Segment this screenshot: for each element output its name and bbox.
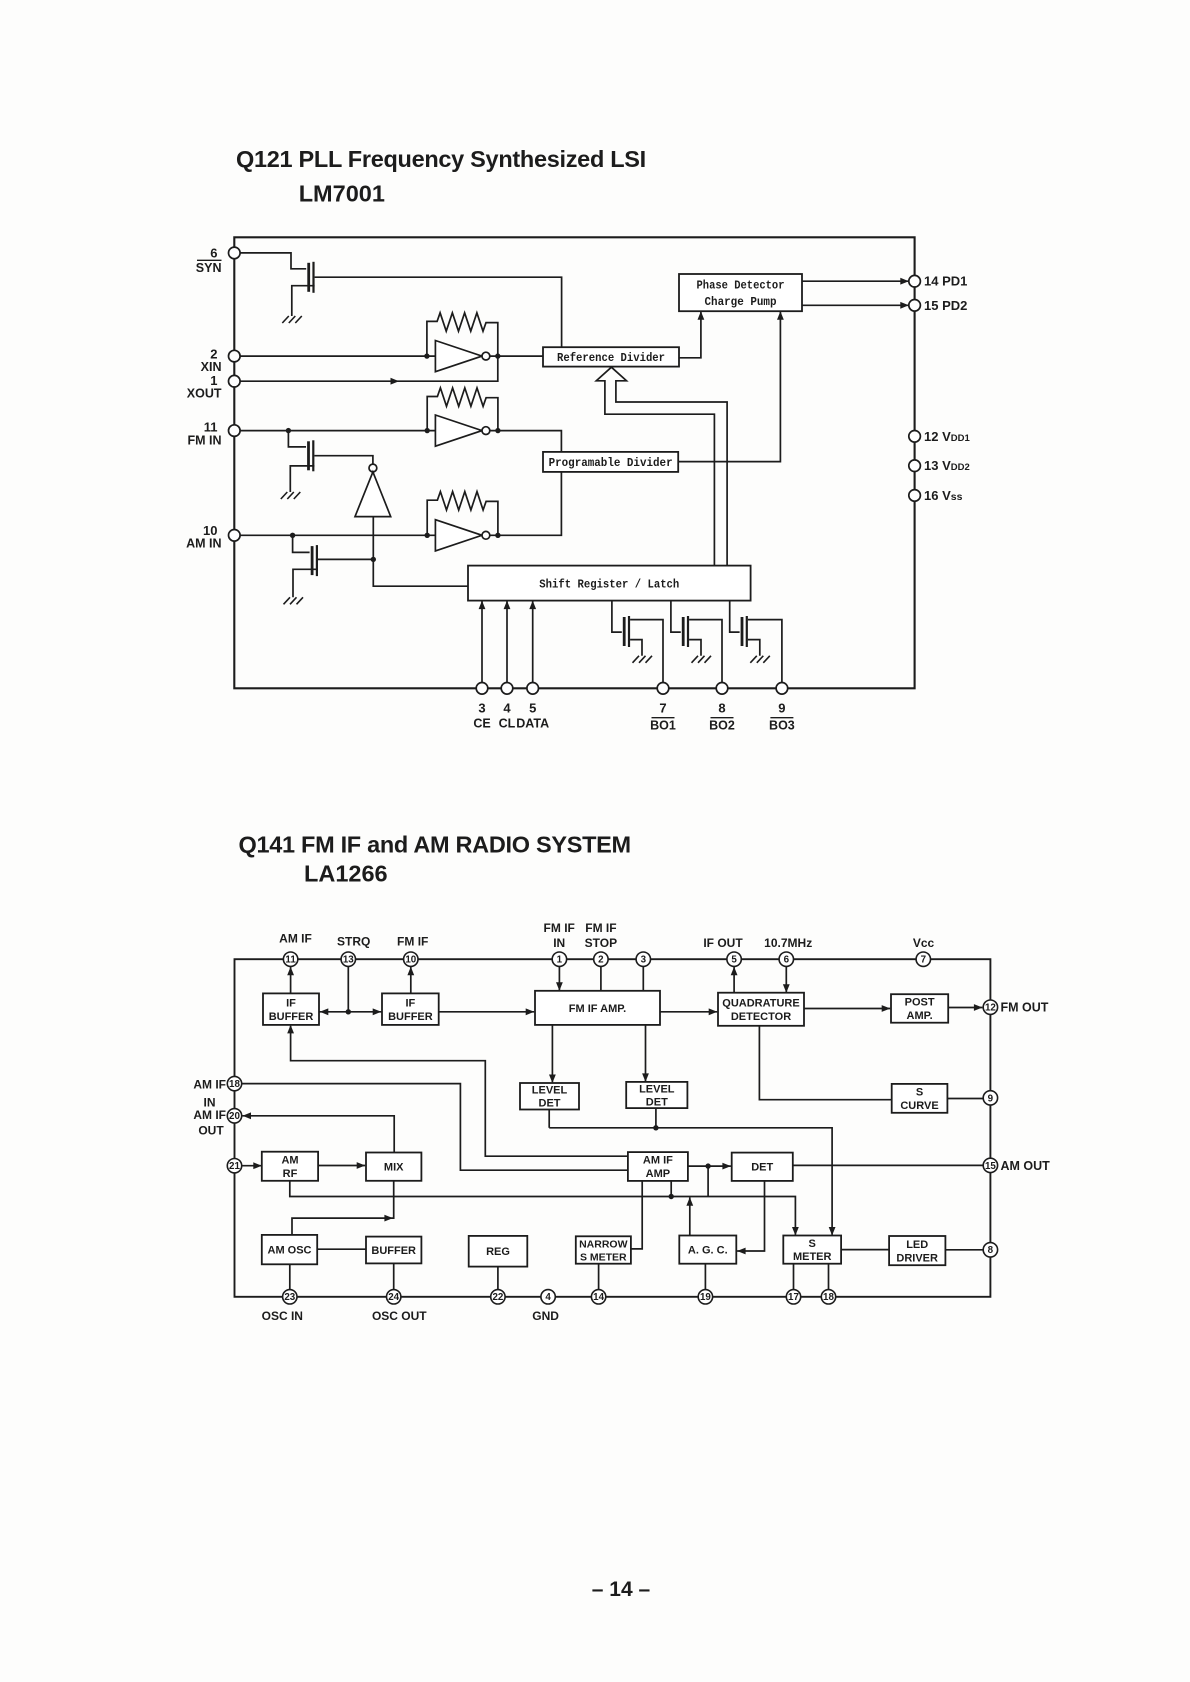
wire: pin 6 10.7MHz to QUADRATURE DETECTOR xyxy=(785,966,787,992)
svg-text:IF: IF xyxy=(406,997,416,1009)
wire: Q5 drain to pin 8 xyxy=(689,620,722,683)
svg-text:6: 6 xyxy=(210,246,217,261)
block: LEVEL DET 1 xyxy=(520,1083,579,1110)
wire: Q2 drain to inverter A4 output xyxy=(314,456,373,464)
arrowhead at pin 15 xyxy=(900,302,909,309)
arrowhead into LEVEL DET 2 xyxy=(642,1073,649,1082)
block: Shift Register / Latch xyxy=(468,566,751,601)
svg-text:5: 5 xyxy=(731,955,737,966)
svg-text:POST: POST xyxy=(905,997,935,1009)
arrowhead at pin 11 xyxy=(287,967,294,976)
block: AM RF xyxy=(262,1152,318,1181)
node: inverter A2 output junction xyxy=(495,428,500,433)
resistor R1 (XIN feedback) xyxy=(427,313,498,356)
svg-text:2: 2 xyxy=(598,955,604,966)
arrowhead into FM IF AMP xyxy=(526,1008,535,1015)
svg-text:23: 23 xyxy=(284,1292,295,1303)
svg-text:LEVEL: LEVEL xyxy=(639,1084,675,1096)
pin 4 terminal (bottom) xyxy=(541,1290,555,1304)
wire: Q3 source to ground xyxy=(293,569,318,597)
block: DET xyxy=(732,1153,793,1181)
node: inverter A1 output junction xyxy=(495,353,500,358)
wire: pin 4 CL to Shift Register xyxy=(506,602,508,689)
wire: Q2 source to ground xyxy=(290,466,314,492)
svg-text:QUADRATURE: QUADRATURE xyxy=(722,998,799,1010)
wire: pin 10 AM IN to inverter A3 xyxy=(240,534,435,536)
arrowhead into S METER (AGC) xyxy=(792,1227,799,1236)
pin 15 PD2 terminal xyxy=(909,300,921,312)
wire: DET to A.G.C. xyxy=(737,1181,764,1251)
wire: AM OSC to pin 23 xyxy=(289,1264,291,1289)
node: AGC rail junction xyxy=(669,1194,674,1199)
wire: A4 input / Q3 drain to Shift Register xyxy=(373,517,468,587)
wire: Q4 drain to pin 7 xyxy=(630,620,663,683)
pin 13 terminal (top) xyxy=(341,952,355,966)
ground (Q2 source) xyxy=(281,492,301,499)
node: inverter A3 input junction xyxy=(425,533,430,538)
arrowhead into LEVEL DET 1 xyxy=(549,1075,556,1084)
inverter A1 (crystal osc) xyxy=(435,341,489,372)
svg-text:3: 3 xyxy=(641,955,647,966)
svg-text:11: 11 xyxy=(285,955,296,966)
ground (Q4 source) xyxy=(633,656,653,663)
ground (Q6 source) xyxy=(750,656,770,663)
svg-text:XIN: XIN xyxy=(201,360,222,374)
arrowhead at pin 5 IF OUT xyxy=(731,967,738,976)
svg-text:DET: DET xyxy=(646,1097,668,1109)
block: Phase Detector / Charge Pump xyxy=(679,274,802,311)
svg-text:XOUT: XOUT xyxy=(187,387,222,401)
pin 1 XOUT terminal xyxy=(229,375,241,387)
svg-text:LED: LED xyxy=(906,1239,928,1251)
pin 18 terminal (bottom) xyxy=(821,1290,835,1304)
wire: FM IF AMP to QUADRATURE DETECTOR xyxy=(660,1011,717,1013)
block: LEVEL DET 2 xyxy=(626,1082,687,1109)
svg-text:DATA: DATA xyxy=(516,717,549,731)
bus: Shift Register to Reference Divider (hollow arrow) xyxy=(596,367,727,565)
arrowhead at pin 14 xyxy=(900,278,909,285)
svg-text:9: 9 xyxy=(988,1093,994,1104)
svg-text:BUFFER: BUFFER xyxy=(388,1011,433,1023)
wire: Shift Register to Q6 gate xyxy=(730,601,740,633)
svg-text:LM7001: LM7001 xyxy=(299,181,385,207)
svg-text:8: 8 xyxy=(988,1245,994,1256)
pin 14 PD1 terminal xyxy=(909,275,921,287)
wire: FM IN node to Q2 gate xyxy=(288,431,306,447)
svg-text:FM IF: FM IF xyxy=(544,921,575,935)
svg-text:RF: RF xyxy=(283,1168,298,1180)
pin 3 terminal (top) xyxy=(636,952,650,966)
svg-text:10: 10 xyxy=(405,955,416,966)
wire: Q5 source to ground xyxy=(689,640,701,656)
svg-text:24: 24 xyxy=(388,1292,399,1303)
arrowhead into S METER (level) xyxy=(829,1227,836,1236)
svg-text:FM IN: FM IN xyxy=(187,434,221,448)
block: IF BUFFER 2 xyxy=(382,993,439,1025)
svg-text:BO2: BO2 xyxy=(709,719,735,733)
pin 15 terminal (AM OUT) xyxy=(983,1158,997,1172)
node: AM IN junction to Q3 gate xyxy=(290,533,295,538)
svg-text:OSC OUT: OSC OUT xyxy=(372,1309,427,1323)
arrowhead at pin 10 xyxy=(407,967,414,976)
wire: pin 18 AM IF IN to AM IF AMP xyxy=(242,1084,628,1171)
wire: IF BUFFER 1 / IF BUFFER 2 coupling xyxy=(319,1011,382,1013)
wire: Reference Divider to Phase Detector xyxy=(679,312,701,358)
node: AM IF AMP output junction xyxy=(705,1163,710,1168)
ground (Q1 source) xyxy=(282,316,302,323)
wire: pin 2 XIN to inverter input xyxy=(240,355,435,357)
svg-text:Programable Divider: Programable Divider xyxy=(549,456,673,470)
svg-text:14 PD1: 14 PD1 xyxy=(924,274,967,289)
svg-text:AMP.: AMP. xyxy=(907,1010,933,1022)
pin 4 CL terminal xyxy=(501,683,513,695)
transistor Q3 (AM mute switch) xyxy=(312,545,317,576)
wire: AM OSC to BUFFER xyxy=(317,1248,366,1250)
wire: pin 11 FM IN to inverter A2 xyxy=(240,430,435,432)
svg-text:DET: DET xyxy=(539,1098,561,1110)
block: AM IF AMP xyxy=(628,1152,688,1181)
pin 10 AM IN terminal xyxy=(229,530,241,542)
wire: A1 output to Reference Divider xyxy=(490,355,543,357)
svg-text:5: 5 xyxy=(529,701,536,716)
pin 2 XIN terminal xyxy=(229,350,241,362)
wire: Programable Divider to Phase Detector xyxy=(678,312,780,462)
wire: Q6 drain to pin 9 xyxy=(748,620,782,683)
svg-text:16 Vss: 16 Vss xyxy=(924,488,963,503)
arrowhead into Shift Register (CL) xyxy=(504,601,511,610)
inverter A4 (band switch, points up) xyxy=(355,464,391,516)
svg-text:CE: CE xyxy=(473,717,490,731)
wire: pin 1 XOUT feedback xyxy=(240,356,498,381)
svg-text:FM IF AMP.: FM IF AMP. xyxy=(569,1003,626,1015)
pin 1 terminal (top) xyxy=(552,952,566,966)
svg-text:8: 8 xyxy=(718,701,725,716)
svg-text:BUFFER: BUFFER xyxy=(371,1245,416,1257)
svg-text:4: 4 xyxy=(545,1292,551,1303)
svg-text:AM OSC: AM OSC xyxy=(268,1245,312,1257)
pin 3 CE terminal xyxy=(476,683,488,695)
wire: Q1 drain to Reference Divider xyxy=(315,277,562,347)
wire: AM IF AMP output to AGC rail xyxy=(707,1166,709,1196)
wire: LEVEL DET 2 output xyxy=(655,1108,657,1128)
svg-text:Phase Detector: Phase Detector xyxy=(697,279,785,293)
arrowhead into QUADRATURE DETECTOR xyxy=(709,1008,718,1015)
pin 10 terminal (top) xyxy=(404,952,418,966)
transistor Q2 (FM mute switch) xyxy=(309,440,314,471)
svg-text:AM OUT: AM OUT xyxy=(1001,1159,1051,1173)
svg-text:18: 18 xyxy=(229,1079,240,1090)
wire: REG to pin 22 xyxy=(497,1267,499,1290)
svg-text:15: 15 xyxy=(985,1161,996,1172)
pin 9 BO3 terminal xyxy=(776,683,788,695)
wire: Shift Register to Q5 gate xyxy=(671,601,681,633)
wire: pin 6 SYN to Q1 gate xyxy=(240,253,306,269)
wire: A.G.C. to pin 19 xyxy=(704,1264,706,1290)
svg-text:13: 13 xyxy=(343,955,354,966)
wire: FM IF AMP to LEVEL DET 1 xyxy=(551,1025,553,1082)
wire: POST AMP to pin 12 FM OUT xyxy=(948,1007,982,1009)
svg-text:20: 20 xyxy=(229,1111,240,1122)
svg-text:14: 14 xyxy=(593,1292,604,1303)
arrowhead at pin 20 xyxy=(243,1112,252,1119)
wire: Q1 source to ground xyxy=(292,286,315,316)
wire: AM OSC to MIX xyxy=(292,1181,394,1235)
arrowhead into FM IF AMP (pin 1) xyxy=(556,982,563,991)
svg-text:Vcc: Vcc xyxy=(913,936,935,950)
node: inverter A3 output junction xyxy=(495,533,500,538)
svg-text:OUT: OUT xyxy=(198,1124,224,1138)
wire: pin 21 to AM RF xyxy=(242,1165,261,1167)
block: IF BUFFER 1 xyxy=(263,993,319,1025)
svg-text:AM IN: AM IN xyxy=(186,537,221,551)
svg-text:6: 6 xyxy=(784,955,790,966)
pin 24 terminal (bottom) xyxy=(387,1290,401,1304)
resistor R3 (AM amp feedback) xyxy=(427,492,498,536)
wire: S METER to pin 18 xyxy=(828,1264,830,1290)
wire: FM IF AMP to LEVEL DET 2 xyxy=(645,1025,647,1081)
arrowhead into IF BUFFER 1 xyxy=(320,1008,329,1015)
block: A.G.C. xyxy=(679,1236,736,1264)
arrowhead into A.G.C. xyxy=(737,1248,746,1255)
pin 2 terminal (top) xyxy=(594,952,608,966)
wire: AM IF AMP to NARROW S METER xyxy=(631,1181,642,1249)
arrowhead into Phase Detector (ref) xyxy=(698,311,705,320)
svg-text:Shift Register / Latch: Shift Register / Latch xyxy=(539,577,679,591)
wire: QUADRATURE DETECTOR to S CURVE xyxy=(759,1026,891,1100)
svg-text:STOP: STOP xyxy=(585,936,617,950)
svg-text:LA1266: LA1266 xyxy=(304,861,388,887)
wire: AM IF AMP bottom to AGC rail xyxy=(670,1181,672,1197)
inverter A3 (AM input amp) xyxy=(435,520,489,551)
wire: IF BUFFER 2 to pin 10 xyxy=(410,967,412,994)
arrowhead into Phase Detector (prog) xyxy=(777,311,784,320)
svg-text:18: 18 xyxy=(823,1292,834,1303)
wire: DET to pin 15 AM OUT xyxy=(793,1164,983,1166)
svg-text:15 PD2: 15 PD2 xyxy=(924,298,967,313)
block: LED DRIVER xyxy=(889,1236,945,1265)
wire: Q4 source to ground xyxy=(630,640,642,656)
node: FM IN junction to Q2 gate xyxy=(286,428,291,433)
arrowhead into IF BUFFER 1 bottom xyxy=(287,1025,294,1034)
block: FM IF AMP. xyxy=(535,991,660,1025)
svg-text:FM IF: FM IF xyxy=(397,935,428,949)
svg-text:A. G. C.: A. G. C. xyxy=(688,1245,728,1257)
svg-text:BUFFER: BUFFER xyxy=(269,1011,314,1023)
svg-text:9: 9 xyxy=(778,701,785,716)
pin 17 terminal (bottom) xyxy=(786,1290,800,1304)
transistor Q6 (BO3 output) xyxy=(742,616,747,647)
transistor Q1 (SYN mute switch) xyxy=(309,262,314,293)
wire: level det rail to S METER xyxy=(549,1128,832,1235)
svg-text:AM IF: AM IF xyxy=(193,1078,226,1092)
pin 20 terminal (AM IF OUT) xyxy=(227,1109,241,1123)
arrow on XOUT wire xyxy=(391,378,400,385)
arrowhead into IF BUFFER 2 xyxy=(373,1008,382,1015)
wire: A.G.C. output to AGC rail xyxy=(689,1197,691,1235)
block: BUFFER xyxy=(366,1237,421,1264)
wire: LEVEL DET 1 output xyxy=(548,1110,550,1128)
pin 16 Vss terminal xyxy=(909,490,921,502)
inverter A2 (FM input amp) xyxy=(435,415,489,446)
wire: MIX to pin 20 AM IF OUT xyxy=(243,1116,395,1153)
pin 22 terminal (bottom) xyxy=(491,1290,505,1304)
svg-text:22: 22 xyxy=(492,1292,503,1303)
wire: A2 output to Programable Divider xyxy=(490,431,562,452)
svg-text:GND: GND xyxy=(532,1309,559,1323)
pin 12 VDD1 terminal xyxy=(909,431,921,443)
pin 6 SYN terminal xyxy=(229,247,241,259)
svg-text:S: S xyxy=(916,1087,923,1099)
svg-text:7: 7 xyxy=(659,701,666,716)
svg-text:BO3: BO3 xyxy=(769,719,795,733)
svg-text:IN: IN xyxy=(553,936,565,950)
svg-text:OSC IN: OSC IN xyxy=(262,1309,303,1323)
wire: S METER to pin 17 xyxy=(793,1264,795,1290)
block: S CURVE xyxy=(892,1084,948,1113)
arrowhead into MIX xyxy=(357,1162,366,1169)
node: inverter A1 input junction xyxy=(424,353,429,358)
IC outline box (LA1266) xyxy=(235,959,991,1297)
arrowhead into Shift Register (DATA) xyxy=(529,601,536,610)
svg-text:FM OUT: FM OUT xyxy=(1001,1001,1049,1015)
wire: IF BUFFER 2 to FM IF AMP xyxy=(439,1011,535,1013)
wire: Phase Detector to pin 14 PD1 xyxy=(802,280,909,282)
node: Q3 drain junction xyxy=(371,557,376,562)
svg-text:19: 19 xyxy=(700,1292,711,1303)
wire: pin 3 stub xyxy=(642,966,644,990)
wire: AM IN node to Q3 gate xyxy=(293,535,310,552)
wire: AM IF AMP to IF BUFFER 1 (AM IF loop) xyxy=(291,1026,628,1156)
pin 14 terminal (bottom) xyxy=(591,1290,605,1304)
svg-text:REG: REG xyxy=(486,1246,510,1258)
wire: S CURVE to pin 9 xyxy=(947,1098,983,1100)
pin 5 DATA terminal xyxy=(527,683,539,695)
wire: IF BUFFER 1 to pin 11 xyxy=(290,967,292,994)
node: inverter A2 input junction xyxy=(425,428,430,433)
svg-text:Q121 PLL Frequency Synthesized: Q121 PLL Frequency Synthesized LSI xyxy=(236,146,646,172)
svg-text:1: 1 xyxy=(557,955,563,966)
arrowhead into AM RF xyxy=(253,1162,261,1169)
block: NARROW S METER xyxy=(576,1236,631,1263)
arrowhead at AGC rail xyxy=(686,1197,693,1206)
svg-text:10.7MHz: 10.7MHz xyxy=(764,936,812,950)
svg-text:AMP: AMP xyxy=(646,1168,670,1180)
svg-text:CURVE: CURVE xyxy=(900,1100,938,1112)
block: REG xyxy=(469,1236,528,1267)
pin 12 terminal (FM OUT) xyxy=(983,1000,997,1014)
svg-text:3: 3 xyxy=(478,701,485,716)
svg-text:4: 4 xyxy=(503,701,511,716)
wire: pin 1 FM IF IN to FM IF AMP xyxy=(558,966,560,990)
wire: A3 output to Programable Divider xyxy=(490,472,562,535)
wire: pin 13 STRQ stub xyxy=(347,966,349,1011)
svg-text:11: 11 xyxy=(204,420,218,435)
svg-text:AM IF: AM IF xyxy=(193,1108,226,1122)
wire: S METER to LED DRIVER xyxy=(841,1249,889,1251)
wire: Phase Detector to pin 15 PD2 xyxy=(802,304,909,306)
block: AM OSC xyxy=(262,1235,317,1264)
svg-text:METER: METER xyxy=(793,1251,832,1263)
svg-text:Q141 FM IF and AM RADIO SYSTEM: Q141 FM IF and AM RADIO SYSTEM xyxy=(239,832,631,858)
svg-text:AM IF: AM IF xyxy=(643,1155,673,1167)
svg-text:LEVEL: LEVEL xyxy=(532,1085,568,1097)
svg-text:Reference Divider: Reference Divider xyxy=(557,351,665,365)
pin 8 BO2 terminal xyxy=(716,683,728,695)
svg-text:12: 12 xyxy=(985,1003,996,1014)
wire: AGC rail (AM RF / AM IF AMP / S METER) xyxy=(290,1181,796,1235)
block: Programable Divider xyxy=(543,452,678,472)
svg-text:Charge Pump: Charge Pump xyxy=(705,295,777,309)
wire: AM RF to MIX xyxy=(318,1165,365,1167)
svg-text:DRIVER: DRIVER xyxy=(896,1252,938,1264)
arrowhead into Shift Register (CE) xyxy=(479,601,486,610)
overline for SYN xyxy=(197,259,222,261)
pin 23 terminal (bottom) xyxy=(283,1290,297,1304)
svg-text:DETECTOR: DETECTOR xyxy=(731,1011,791,1023)
pin 19 terminal (bottom) xyxy=(698,1290,712,1304)
svg-text:CL: CL xyxy=(499,717,516,731)
svg-text:AM IF: AM IF xyxy=(279,932,312,946)
wire: QUADRATURE DETECTOR to pin 5 xyxy=(733,967,735,993)
svg-text:DET: DET xyxy=(751,1162,773,1174)
pin 6 terminal (top) xyxy=(779,952,793,966)
pin 9 terminal xyxy=(983,1091,997,1105)
wire: Shift Register to Q4 gate xyxy=(612,601,622,633)
node: STRQ junction xyxy=(346,1009,351,1014)
svg-text:FM IF: FM IF xyxy=(585,921,616,935)
block: Reference Divider xyxy=(543,347,679,366)
arrowhead into QUADRATURE DETECTOR (pin 6) xyxy=(783,984,790,993)
wire: Q6 source to ground xyxy=(748,640,760,656)
node: level det rail junction xyxy=(653,1125,658,1130)
wire: AM IF AMP to DET xyxy=(688,1165,731,1167)
transistor Q5 (BO2 output) xyxy=(683,616,688,647)
arrowhead into DET xyxy=(722,1163,731,1170)
svg-text:IF OUT: IF OUT xyxy=(703,936,743,950)
wire: pin 2 FM IF STOP stub xyxy=(600,966,602,990)
svg-text:S: S xyxy=(809,1238,816,1250)
block: QUADRATURE DETECTOR xyxy=(718,993,804,1026)
svg-text:BO1: BO1 xyxy=(650,719,676,733)
svg-text:NARROW: NARROW xyxy=(579,1238,627,1250)
wire: Q3 drain to A4 input node xyxy=(318,558,373,560)
ground (Q3 source) xyxy=(284,597,304,604)
pin 7 BO1 terminal xyxy=(657,683,669,695)
arrowhead at pin 12 xyxy=(974,1004,983,1011)
wire: LED DRIVER to pin 8 xyxy=(945,1249,983,1251)
arrowhead on AM OSC to MIX wire xyxy=(384,1215,393,1222)
block: MIX xyxy=(366,1153,421,1181)
svg-text:S METER: S METER xyxy=(580,1251,627,1263)
pin 5 terminal (top) xyxy=(727,952,741,966)
wire: BUFFER to pin 24 xyxy=(393,1263,395,1289)
svg-text:AM: AM xyxy=(281,1155,298,1167)
svg-text:SYN: SYN xyxy=(196,261,222,275)
pin 7 terminal (top) xyxy=(916,952,930,966)
svg-text:7: 7 xyxy=(921,955,927,966)
resistor R2 (FM amp feedback) xyxy=(427,388,498,431)
arrowhead into POST AMP xyxy=(882,1005,891,1012)
pin 11 terminal (top) xyxy=(283,952,297,966)
svg-text:STRQ: STRQ xyxy=(337,935,370,949)
pin 18 terminal (AM IF IN) xyxy=(227,1076,241,1090)
pin 11 FM IN terminal xyxy=(229,425,241,437)
svg-text:21: 21 xyxy=(229,1161,240,1172)
wire: QUADRATURE DETECTOR to POST AMP xyxy=(804,1008,890,1010)
block: POST AMP. xyxy=(891,994,948,1023)
pin 21 terminal xyxy=(227,1159,241,1173)
pin 8 terminal xyxy=(983,1243,997,1257)
